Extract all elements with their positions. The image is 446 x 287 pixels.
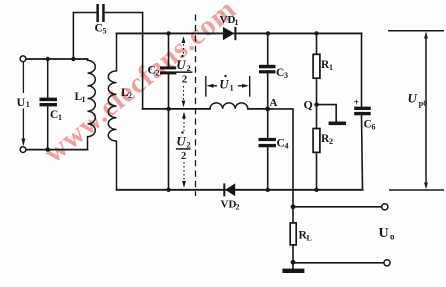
wire C5 loop top left bbox=[73, 12, 96, 14]
label Uo bbox=[379, 226, 396, 241]
svg-text:L: L bbox=[307, 234, 312, 243]
wire input top rail bbox=[26, 58, 88, 60]
terminal output bottom bbox=[384, 260, 390, 266]
wire C5 right riser to center tap bbox=[142, 13, 144, 109]
wire center tap line bbox=[143, 108, 210, 110]
resistor R2 bbox=[313, 129, 320, 153]
wire C6 branch upper bbox=[361, 33, 363, 106]
junction R2 bottom on bottom rail bbox=[314, 188, 318, 192]
label R1 bbox=[321, 59, 333, 72]
wire C2 branch lower bbox=[168, 74, 170, 190]
svg-text:2: 2 bbox=[128, 91, 132, 100]
label C5 bbox=[95, 23, 107, 36]
wire C6 branch lower bbox=[362, 115, 363, 190]
svg-text:2: 2 bbox=[182, 74, 188, 86]
label VD2 bbox=[221, 199, 240, 212]
wire choke to node A bbox=[248, 108, 268, 110]
capacitor C5 bbox=[96, 4, 104, 22]
inductor L2 bbox=[108, 33, 116, 189]
svg-text:2: 2 bbox=[187, 139, 191, 149]
label Up0 bbox=[408, 91, 428, 108]
svg-text:U: U bbox=[219, 77, 229, 92]
inductor L1 bbox=[88, 59, 96, 150]
U1 dimension between ticks bbox=[206, 76, 250, 97]
wire output line to terminal 1 bbox=[293, 206, 381, 208]
junction C5 riser on input rail bbox=[71, 57, 75, 61]
ground at Q bbox=[329, 122, 346, 126]
junction C1 bottom on input rail bbox=[46, 147, 50, 151]
junction C4 bottom on bottom rail bbox=[266, 188, 270, 192]
capacitor C6 (electrolytic) bbox=[354, 107, 371, 116]
terminal input top bbox=[20, 56, 26, 62]
wire main top rail bbox=[117, 32, 362, 34]
wire C5 loop top right bbox=[105, 12, 143, 14]
wire R1 top lead bbox=[316, 33, 318, 54]
watermark www.elecfans.com bbox=[38, 0, 242, 169]
wire R1-R2 middle (node Q) bbox=[316, 78, 318, 128]
wire C3 bottom to node A bbox=[267, 73, 269, 138]
node Q junction dot bbox=[314, 102, 318, 106]
label C1 bbox=[50, 109, 62, 122]
U2/2 top fraction label bbox=[176, 55, 193, 86]
wire Q to ground bbox=[317, 105, 337, 122]
svg-text:3: 3 bbox=[284, 71, 288, 80]
svg-text:1: 1 bbox=[329, 63, 333, 72]
svg-text:+: + bbox=[354, 97, 360, 108]
svg-text:6: 6 bbox=[372, 123, 376, 132]
label L1 bbox=[75, 91, 86, 104]
svg-text:o: o bbox=[390, 231, 395, 241]
U2/2 top dimension (dotted arrows) bbox=[183, 40, 185, 103]
svg-text:U: U bbox=[176, 57, 186, 72]
junction ground tap bbox=[291, 260, 296, 265]
wire C1 leads bbox=[47, 59, 49, 98]
resistor R1 bbox=[313, 54, 320, 78]
svg-text:1: 1 bbox=[235, 18, 239, 27]
label C4 bbox=[277, 137, 289, 150]
svg-text:U: U bbox=[176, 133, 186, 148]
label U1 (input) bbox=[17, 95, 30, 109]
label C2 bbox=[148, 65, 160, 78]
label C6 bbox=[364, 118, 376, 131]
svg-text:2: 2 bbox=[236, 203, 240, 212]
label L2 bbox=[121, 87, 132, 100]
wire node A jog right bbox=[268, 109, 293, 207]
wire R2 bottom lead bbox=[316, 152, 318, 189]
diode VD1 bbox=[223, 27, 236, 40]
node A junction dot bbox=[265, 107, 270, 112]
diode VD2 bbox=[224, 183, 235, 196]
choke L3 (horizontal coil) bbox=[210, 103, 248, 109]
wire RL top lead bbox=[292, 207, 294, 223]
junction center tap / C2 branch bbox=[166, 107, 170, 111]
svg-text:1: 1 bbox=[58, 113, 62, 122]
wire main bottom rail bbox=[117, 189, 363, 191]
svg-text:2: 2 bbox=[156, 69, 160, 78]
wire C2 branch upper bbox=[168, 33, 170, 66]
U2/2 bottom fraction label bbox=[176, 131, 191, 162]
svg-text:2: 2 bbox=[329, 137, 333, 146]
svg-text:p0: p0 bbox=[419, 99, 427, 108]
label VD1 bbox=[220, 14, 239, 27]
U1 voltage arrow bbox=[22, 62, 24, 144]
terminal input bottom bbox=[20, 147, 26, 153]
wire RL bottom lead bbox=[292, 245, 294, 262]
dashed boundary line bbox=[195, 15, 197, 197]
wire C4 bottom bbox=[267, 147, 269, 190]
svg-text:U: U bbox=[17, 95, 26, 109]
Up0 bracket right side bbox=[388, 31, 444, 190]
svg-text:VD: VD bbox=[221, 199, 237, 211]
ground below RL bbox=[282, 269, 304, 273]
junction C2 bottom on bottom rail bbox=[166, 188, 170, 192]
label R2 bbox=[321, 133, 333, 146]
junction output tap bbox=[291, 204, 296, 209]
svg-text:2: 2 bbox=[181, 151, 186, 162]
svg-text:1: 1 bbox=[230, 83, 234, 93]
svg-text:1: 1 bbox=[26, 100, 30, 109]
svg-text:4: 4 bbox=[285, 142, 289, 151]
svg-text:2: 2 bbox=[187, 63, 191, 73]
wire C5 left riser bbox=[72, 13, 74, 60]
junction R1 top on secondary rail bbox=[314, 31, 318, 35]
junction C3 top on secondary rail bbox=[266, 31, 270, 35]
svg-text:A: A bbox=[270, 97, 278, 109]
junction C1 top on input rail bbox=[46, 57, 50, 61]
wire ground stub below RL bbox=[292, 262, 294, 268]
label RL bbox=[299, 230, 312, 243]
svg-text:5: 5 bbox=[103, 27, 107, 36]
capacitor C1 bbox=[40, 98, 58, 107]
wire input bottom rail bbox=[26, 149, 88, 151]
svg-text:VD: VD bbox=[220, 14, 236, 26]
capacitor C4 bbox=[259, 138, 277, 147]
wire ground line to terminal 2 bbox=[293, 262, 384, 264]
wire C3 top bbox=[267, 33, 269, 64]
U2/2 bottom dimension (dotted arrows) bbox=[183, 118, 185, 182]
resistor RL bbox=[290, 223, 296, 245]
terminal output top bbox=[382, 204, 388, 210]
svg-text:1: 1 bbox=[82, 95, 86, 104]
svg-text:U: U bbox=[379, 226, 389, 241]
capacitor C3 bbox=[259, 65, 276, 74]
junction C2 top on secondary rail bbox=[166, 31, 170, 35]
svg-text:Q: Q bbox=[304, 97, 313, 111]
svg-text:U: U bbox=[408, 91, 418, 106]
label C3 bbox=[276, 67, 288, 80]
capacitor C2 bbox=[160, 66, 176, 74]
